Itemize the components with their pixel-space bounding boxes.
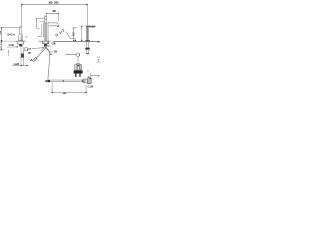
J swing line horizontal [36,18,44,20]
right vdim line [73,28,75,41]
handle top extension long line [1,26,21,28]
circle dark edge [78,54,80,56]
hose 1 crossing down-left [37,46,48,58]
hose2 leader line [50,51,53,53]
svg-text:195: 195 [48,0,53,4]
extension line left (to handle) [21,4,23,41]
dim 136 ext right (to spout tip) [58,13,60,21]
lever top ext arrow [81,26,82,27]
left tube connector dark [21,54,24,58]
circle detail [24,48,27,51]
spout arm bottom [49,25,58,27]
svg-text:150: 150 [54,51,58,54]
right body sides [86,26,88,40]
right lever top [86,26,95,27]
left tube [21,46,24,65]
fixing kit stem [77,56,79,62]
right lever bottom [89,26,95,28]
right vdim arrow top [73,28,74,29]
body outer contour left [40,25,43,37]
right shank ring [86,43,88,45]
hose 2 end connector dark [45,80,47,82]
right vdim ext top [73,27,78,29]
right body shade [86,26,88,41]
svg-text:300: 300 [62,91,67,95]
left handle flare [19,34,23,36]
svg-text:150: 150 [0,30,2,35]
nut shade [84,79,86,83]
svg-text:G 3/8: G 3/8 [88,85,94,89]
svg-text:G3/8: G3/8 [9,44,15,47]
fixing kit leader line [66,54,77,56]
tail stub below cap [87,54,89,56]
body shade light [46,23,48,41]
leader line short [38,35,40,37]
bottom dim line [52,92,86,94]
top dimension arrow right [86,4,88,6]
bottom reference line [12,64,27,66]
vdim2 arrow bottom [1,49,2,50]
valve body [88,78,90,84]
bottom dim arrow right [85,92,86,93]
svg-text:457: 457 [73,31,76,36]
lever top ext hline [82,25,87,27]
kit dark flange [74,70,83,73]
leader hline end dark [98,75,99,76]
dim 136 arrow right [58,13,59,14]
top dimension arrow left [21,4,23,6]
hose band top [51,79,82,81]
dim 136 line [47,12,59,14]
right tail [86,50,88,54]
hose1 connector arrow tip [30,59,32,61]
neck [86,80,88,83]
spout tip edge [57,23,60,26]
kit leg left [75,74,76,78]
spout body [44,23,48,41]
spout nut box [43,41,49,44]
deck extension to left dim [1,40,16,42]
right nut dark [85,48,89,50]
lever ext bottom arrow [81,40,82,41]
bottom dim arrow left [51,92,52,93]
left nut box [18,41,24,44]
right vdim arrow bottom [73,40,74,41]
panel bottom ext line [0,49,4,51]
valve leader vline [90,73,92,79]
svg-text:max.35: max.35 [14,63,20,66]
hose band fill [51,80,82,81]
leader arrow at body left [39,35,42,38]
valve body shade [88,78,90,83]
left shank dark [19,44,22,47]
body left lower curl [42,35,45,38]
small text under 45 [28,52,30,54]
slanted leader arrow [75,40,76,41]
hose 2 curve [45,46,50,79]
top dimension line [22,3,88,5]
right shank below deck [86,42,88,48]
valve stem cap [88,75,89,77]
svg-text:Ø45: Ø45 [7,33,13,37]
left handle base bottom band [19,39,23,42]
hose crossing strand [44,46,49,51]
fixing kit circle [76,53,79,56]
text 300 [62,92,67,95]
faint text above valve [87,70,88,71]
spout deck line [39,40,51,42]
hose2 leader arrow [48,50,51,53]
extension line right (to right faucet lever) [86,4,88,26]
left handle top nub [20,26,22,27]
bottom dim left ext [51,82,53,92]
left handle base shade [20,36,22,41]
left handle stem [18,27,20,33]
vdim2 arrow top [1,41,2,42]
ref line end arrow [26,65,27,66]
circle dark tick [26,49,29,50]
hose1 connector end cap [36,57,38,59]
dia45 arrow tick [13,34,15,35]
vdim1 arrow bottom [1,40,2,41]
right deck end dark [98,41,100,42]
valve stem [88,76,90,78]
kit leg right [79,74,80,78]
left tube flare [22,46,23,48]
hose 1 second strand [41,46,45,51]
J swing line vertical with curl [36,19,39,29]
dim 136 arrow left [46,13,47,14]
right body flare [85,40,89,41]
kit top curves [76,63,80,64]
vertical dim 1 line [0,28,2,41]
small mark right of handle base [26,36,27,38]
right base dark band [85,40,89,41]
circle leader arrow [42,47,43,48]
hose band bottom [51,81,82,83]
right deck line [53,41,99,43]
svg-text:35: 35 [0,43,2,48]
svg-text:100: 100 [97,57,100,64]
J swing line dot [35,18,38,19]
spout arm top [48,22,58,24]
crimp dark [82,80,83,83]
dim 136 ext left [46,13,48,16]
spout shank dark [44,44,47,47]
its leader [48,45,51,47]
hose band dark tick [63,80,64,82]
right lever end cap [94,26,96,27]
left handle flare ring2 [19,33,23,35]
bottom dim right ext [85,85,87,93]
spout nut inner [43,41,45,44]
aerator [57,26,58,27]
kit block center dark [77,65,79,67]
valve leader hline [91,75,100,77]
tube ring tick [23,51,24,52]
lever top ext vline [81,26,83,41]
spout faucet lever [45,16,47,23]
valve right end [90,79,92,83]
kit block hatch [76,65,81,70]
vertical dim 2 line [0,41,2,50]
valve leader arrow [90,78,91,79]
right tail cap dark [86,52,89,55]
hose crossing strand b [44,46,47,49]
G3/8 leader [7,46,18,48]
left handle flare ring [19,33,22,35]
body shade dark [44,23,46,41]
svg-text:262: 262 [54,0,59,4]
slanted label leader [66,32,75,41]
short hline into lever [40,20,45,22]
kit block [75,65,82,70]
G3/8 leader arrow [17,46,18,47]
hose nut [84,79,86,83]
left deck line [16,40,26,42]
svg-text:136: 136 [52,9,56,13]
small leader below [8,51,10,57]
vdim1 arrow top [1,27,2,28]
hose1 connector threads [32,58,36,62]
tube end dark mark [21,65,23,66]
left handle base [19,36,23,41]
lever shoulder [45,19,47,21]
circle leader to shank [32,48,43,49]
